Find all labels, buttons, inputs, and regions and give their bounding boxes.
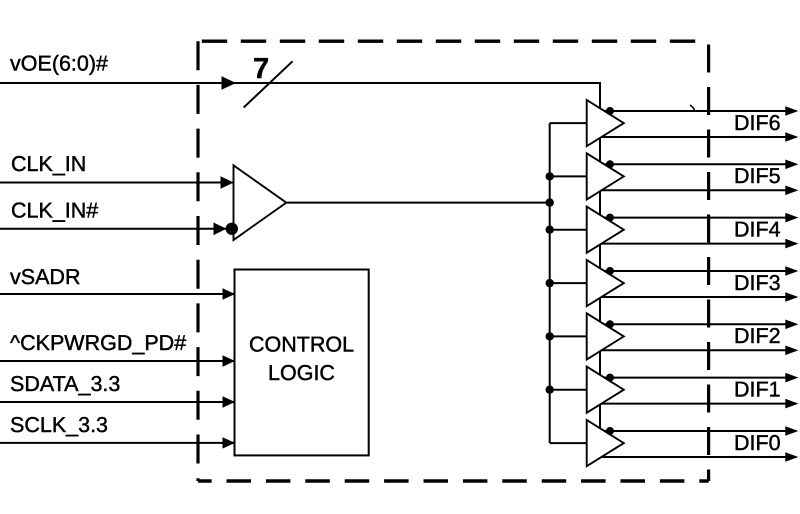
svg-text:CLK_IN#: CLK_IN#	[11, 199, 98, 223]
svg-text:SCLK_3.3: SCLK_3.3	[10, 413, 108, 437]
junction clock bus / DIF2 stub	[546, 332, 554, 340]
chip boundary dashed box: left edge	[196, 41, 199, 481]
wire DIF0 true output	[604, 430, 786, 432]
arrowhead DIF0 true	[785, 426, 798, 436]
wire DIF1 complement output	[602, 403, 787, 405]
svg-text:vOE(6:0)#: vOE(6:0)#	[10, 52, 108, 76]
arrowhead DIF4 true	[785, 213, 798, 223]
junction dot DIF4 enable tap	[606, 214, 614, 222]
junction dot DIF2 enable tap	[606, 320, 614, 328]
wire vOE bus (horizontal then vertical enable bus)	[0, 83, 600, 428]
wire DIF2 complement output	[602, 349, 787, 351]
wire DIF0 complement output	[602, 456, 787, 458]
junction dot DIF0 enable tap	[606, 427, 614, 435]
arrowhead SDATA_3.3	[223, 396, 236, 407]
junction clock bus / DIF1 stub	[546, 386, 554, 394]
wire CLK_IN	[0, 182, 234, 184]
svg-text:LOGIC: LOGIC	[268, 361, 335, 385]
junction dot DIF1 enable tap	[606, 374, 614, 382]
junction clock bus / DIF3 stub	[546, 279, 554, 287]
wire stub to DIF2 buffer	[550, 335, 587, 337]
chip boundary dashed box: right edge	[707, 41, 710, 481]
junction clock bus / input buffer output	[546, 198, 554, 206]
junction dot DIF6 enable tap	[606, 107, 614, 115]
chip boundary dashed box: top edge	[198, 40, 709, 43]
output buffer DIF2	[587, 313, 624, 359]
arrowhead DIF2 complement	[785, 346, 798, 356]
wire DIF5 complement output	[602, 189, 787, 191]
arrowhead vOE into chip	[222, 76, 237, 90]
output buffer DIF4	[587, 207, 624, 253]
svg-text:^CKPWRGD_PD#: ^CKPWRGD_PD#	[10, 331, 186, 355]
wire stub to DIF1 buffer	[550, 389, 587, 391]
junction dot DIF5 enable tap	[606, 160, 614, 168]
wire stub to DIF6 buffer	[550, 122, 587, 124]
input buffer triangle	[234, 165, 287, 240]
svg-text:CLK_IN: CLK_IN	[11, 152, 86, 176]
wire CLK_IN#	[0, 228, 226, 230]
arrowhead DIF3 complement	[785, 292, 798, 302]
svg-text:DIF0: DIF0	[734, 431, 781, 455]
output buffer DIF0	[587, 420, 624, 466]
arrowhead CLK_IN	[221, 176, 234, 189]
wire DIF5 true output	[604, 163, 786, 165]
svg-text:7: 7	[253, 53, 269, 85]
arrowhead DIF5 complement	[785, 186, 798, 196]
arrowhead ^CKPWRGD_PD#	[223, 355, 236, 366]
arrowhead DIF1 true	[785, 373, 798, 383]
arrowhead SCLK_3.3	[223, 437, 236, 448]
wire SDATA_3.3	[0, 401, 235, 403]
wire stub to DIF0 buffer	[550, 442, 587, 444]
svg-text:CONTROL: CONTROL	[249, 333, 354, 357]
arrowhead DIF0 complement	[785, 452, 798, 462]
wire DIF4 complement output	[602, 243, 787, 245]
arrowhead DIF4 complement	[785, 239, 798, 249]
arrowhead DIF2 true	[785, 320, 798, 330]
output buffer DIF3	[587, 260, 624, 306]
svg-text:DIF5: DIF5	[734, 164, 781, 188]
arrowhead CLK_IN#	[214, 223, 227, 236]
wire clock distribution bus vertical	[549, 123, 551, 443]
arrowhead DIF1 complement	[785, 399, 798, 409]
svg-text:DIF2: DIF2	[734, 324, 781, 348]
svg-text:SDATA_3.3: SDATA_3.3	[10, 372, 120, 396]
svg-text:DIF6: DIF6	[734, 111, 781, 135]
artifact tick on DIF6 line	[690, 105, 695, 110]
wire DIF1 true output	[604, 377, 786, 379]
junction clock bus / DIF4 stub	[546, 226, 554, 234]
output buffer DIF5	[587, 153, 624, 199]
svg-text:DIF4: DIF4	[734, 217, 781, 241]
wire stub to DIF3 buffer	[550, 282, 587, 284]
output buffer DIF1	[587, 367, 624, 413]
wire ^CKPWRGD_PD#	[0, 360, 235, 362]
wire stub to DIF4 buffer	[550, 229, 587, 231]
arrowhead DIF3 true	[785, 266, 798, 276]
wire input buffer output to clock bus	[286, 202, 549, 204]
wire SCLK_3.3	[0, 442, 235, 444]
arrowhead DIF5 true	[785, 160, 798, 170]
wire DIF6 true output	[604, 110, 786, 112]
wire DIF3 true output	[604, 270, 786, 272]
svg-text:vSADR: vSADR	[10, 265, 80, 289]
output buffer DIF6	[587, 100, 624, 146]
junction dot DIF3 enable tap	[606, 267, 614, 275]
arrowhead DIF6 true	[785, 106, 798, 116]
bus-width slash	[244, 61, 293, 107]
svg-text:DIF3: DIF3	[734, 271, 781, 295]
wire stub to DIF5 buffer	[550, 175, 587, 177]
wire DIF3 complement output	[602, 296, 787, 298]
control logic box	[235, 270, 369, 456]
arrowhead vSADR	[223, 288, 236, 299]
junction clock bus / DIF5 stub	[546, 172, 554, 180]
wire DIF4 true output	[604, 217, 786, 219]
wire DIF2 true output	[604, 323, 786, 325]
wire DIF6 complement output	[602, 136, 787, 138]
arrowhead DIF6 complement	[785, 132, 798, 142]
wire vSADR	[0, 293, 235, 295]
junction dot CLK_IN# inverting input	[226, 223, 238, 235]
svg-text:DIF1: DIF1	[734, 377, 781, 401]
chip boundary dashed box: bottom edge	[198, 479, 709, 482]
